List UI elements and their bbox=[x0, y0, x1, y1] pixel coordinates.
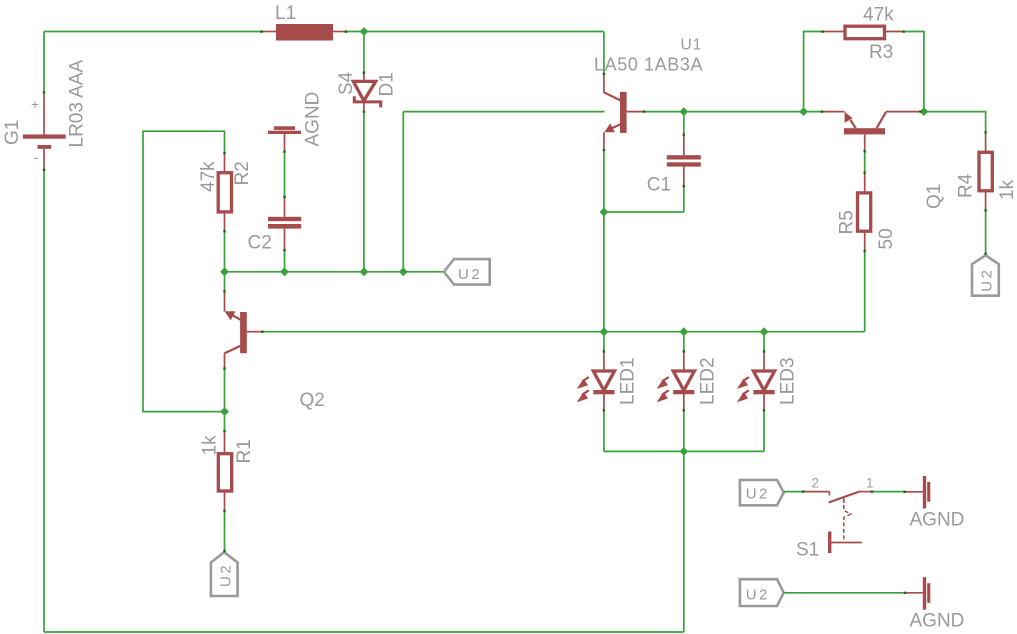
wire U2 flag to S1 bbox=[784, 491, 803, 493]
svg-text:LR03 AAA: LR03 AAA bbox=[67, 60, 88, 148]
ground AGND bottom right bbox=[905, 577, 964, 632]
svg-text:47k: 47k bbox=[198, 161, 219, 192]
junction LED2 top node bbox=[679, 327, 688, 336]
wire Q2 emitter top bbox=[224, 272, 226, 291]
junction emitter/C1 link node bbox=[600, 208, 609, 217]
svg-text:LED3: LED3 bbox=[778, 357, 799, 405]
svg-text:1: 1 bbox=[866, 476, 874, 491]
svg-text:G1: G1 bbox=[2, 120, 23, 145]
wire Q1 collector to R4 bbox=[921, 112, 986, 133]
wire R5 bottom corner to mid bus bbox=[864, 251, 866, 332]
junction D1 node bbox=[360, 267, 369, 276]
wire C1 top bbox=[683, 112, 685, 135]
wire LED bus down to bottom rail bbox=[683, 451, 685, 632]
svg-text:R4: R4 bbox=[956, 173, 977, 198]
net flag U2 bottom right bbox=[740, 579, 784, 606]
svg-text:-: - bbox=[34, 150, 39, 165]
svg-text:C2: C2 bbox=[248, 233, 272, 254]
svg-text:LA50 1AB3A: LA50 1AB3A bbox=[594, 55, 703, 75]
wire U1 emitter down bbox=[603, 150, 605, 332]
svg-text:U2: U2 bbox=[746, 486, 770, 503]
net flag U2 bottom left bbox=[211, 552, 238, 596]
wire R4 bottom bbox=[985, 211, 987, 256]
junction at L1/D1 node bbox=[360, 27, 369, 36]
wire R2 bottom bbox=[224, 231, 226, 271]
svg-text:R5: R5 bbox=[837, 210, 858, 234]
wire mid bus bbox=[263, 331, 865, 333]
wire C2 bottom bbox=[284, 250, 286, 271]
wire C1 link horizontal bbox=[604, 211, 684, 213]
svg-text:L1: L1 bbox=[275, 3, 296, 24]
wire Q2 collector bottom bbox=[224, 368, 226, 411]
svg-text:AGND: AGND bbox=[910, 510, 965, 531]
switch S1 bbox=[796, 476, 874, 561]
wire S1 to AGND bbox=[872, 491, 905, 493]
svg-text:R1: R1 bbox=[234, 439, 255, 463]
LED LED1 bbox=[577, 332, 639, 452]
junction R2/Q2 node bbox=[220, 267, 229, 276]
wire C1 bottom vertical bbox=[683, 186, 685, 212]
transistor Q1 bbox=[822, 112, 945, 209]
svg-text:1k: 1k bbox=[997, 179, 1017, 200]
svg-text:LED1: LED1 bbox=[618, 357, 639, 405]
junction C2 node bbox=[280, 267, 289, 276]
svg-text:R3: R3 bbox=[869, 42, 893, 63]
svg-text:50: 50 bbox=[876, 228, 897, 249]
svg-text:LED2: LED2 bbox=[698, 357, 719, 405]
wire Q1 base to R5 bbox=[864, 151, 866, 172]
inductor L1 bbox=[262, 3, 346, 41]
wire LED bottom bus bbox=[604, 450, 764, 452]
junction LED bottom node bbox=[679, 447, 688, 456]
wire bottom rail bbox=[44, 631, 684, 633]
net flag U2 right bbox=[972, 255, 999, 295]
wire R3 right loop bbox=[904, 32, 924, 112]
wire R3 left loop bbox=[804, 32, 823, 112]
junction C1 node bbox=[679, 107, 688, 116]
svg-text:S1: S1 bbox=[796, 540, 819, 561]
wire top rail left segment bbox=[44, 31, 262, 33]
wire U1 collector top bbox=[603, 32, 605, 74]
wire D1 top bbox=[363, 32, 365, 73]
diode D1 zener bbox=[336, 71, 398, 112]
svg-text:2: 2 bbox=[812, 476, 820, 491]
resistor R2 bbox=[198, 153, 253, 232]
transistor Q2 bbox=[225, 291, 325, 411]
capacitor C2 bbox=[248, 197, 302, 254]
svg-text:47k: 47k bbox=[863, 4, 894, 25]
junction LED3 top node bbox=[760, 327, 769, 336]
svg-text:AGND: AGND bbox=[303, 92, 324, 147]
resistor R3 bbox=[823, 4, 904, 63]
resistor R1 bbox=[200, 431, 255, 511]
svg-text:U2: U2 bbox=[746, 587, 770, 604]
net flag U2 left bbox=[444, 259, 490, 285]
wire D1 bottom bbox=[363, 112, 365, 272]
svg-text:D1: D1 bbox=[377, 72, 398, 96]
wire base-link horizontal bbox=[403, 111, 604, 113]
svg-text:Q1: Q1 bbox=[924, 184, 945, 209]
svg-text:U2: U2 bbox=[458, 266, 482, 283]
wire R1 bottom bbox=[224, 511, 226, 552]
wire U1 base run bbox=[644, 111, 822, 113]
wire battery top bbox=[43, 32, 45, 93]
svg-text:AGND: AGND bbox=[910, 611, 965, 632]
wire R1 top bbox=[224, 412, 226, 431]
wire R2 top loop bbox=[143, 131, 225, 411]
svg-text:R2: R2 bbox=[232, 161, 253, 185]
svg-text:U2: U2 bbox=[218, 563, 235, 587]
junction base-link node bbox=[399, 267, 408, 276]
svg-text:U2: U2 bbox=[979, 268, 996, 292]
resistor R5 bbox=[837, 173, 898, 251]
svg-text:C1: C1 bbox=[647, 175, 671, 196]
wire AGND to C2 bbox=[284, 151, 286, 196]
svg-text:U1: U1 bbox=[681, 37, 703, 54]
junction R3 right node bbox=[920, 107, 929, 116]
svg-text:S4: S4 bbox=[336, 71, 357, 95]
LED LED3 bbox=[737, 332, 799, 452]
junction Q2/R1 node bbox=[220, 407, 229, 416]
ground AGND top bbox=[268, 92, 324, 152]
junction LED1 top node bbox=[600, 327, 609, 336]
wire net row to flag U2 bbox=[225, 271, 444, 273]
capacitor C1 bbox=[647, 135, 701, 196]
junction R3 left node bbox=[799, 107, 808, 116]
wire battery bottom to bottom rail bbox=[43, 170, 45, 632]
transistor U1 bbox=[594, 37, 703, 151]
wire U2 flag to AGND bbox=[784, 592, 905, 594]
svg-text:+: + bbox=[31, 97, 39, 112]
svg-text:1k: 1k bbox=[200, 435, 221, 456]
resistor R4 bbox=[956, 132, 1017, 210]
LED LED2 bbox=[657, 332, 719, 452]
battery G1 bbox=[2, 60, 87, 171]
ground AGND at S1 bbox=[905, 476, 965, 531]
svg-text:Q2: Q2 bbox=[300, 390, 325, 411]
net flag U2 at S1 bbox=[740, 480, 784, 505]
wire base-link vertical bbox=[402, 112, 404, 272]
wire top rail right segment bbox=[346, 31, 604, 33]
